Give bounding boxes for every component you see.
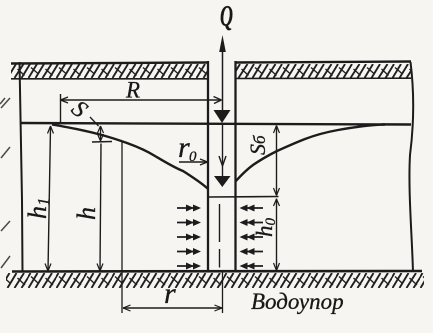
- ground surface top edge right: [236, 62, 411, 63]
- r0 arrow: [200, 159, 208, 165]
- R dimension line: [61, 99, 222, 101]
- well right wall: [234, 61, 236, 272]
- dashed well axis: [219, 204, 221, 268]
- svg-text:h: h: [72, 207, 101, 220]
- left border: [20, 62, 23, 272]
- ground bottom edge right: [236, 77, 411, 79]
- ground bottom edge left: [11, 78, 208, 80]
- edge tear marks left: [0, 98, 10, 268]
- r dimension line: [123, 307, 222, 309]
- h1 dimension line: [48, 127, 51, 271]
- dynamic level line: [209, 196, 279, 199]
- S end tick: [92, 141, 112, 144]
- h0 dimension line: [276, 199, 278, 272]
- S dimension: [100, 127, 102, 140]
- r extension left: [121, 142, 123, 313]
- right border: [409, 62, 413, 272]
- depression curve right: [236, 125, 385, 182]
- r extension right: [222, 272, 224, 313]
- static water level line: [20, 123, 411, 125]
- aquiclude hatch: [6, 273, 424, 288]
- ground hatch left: [11, 64, 208, 78]
- S leader: [90, 117, 99, 126]
- water table symbol (static): [214, 110, 231, 123]
- R right arrow: [214, 97, 222, 104]
- h dimension line: [100, 144, 101, 272]
- Sb dimension line: [276, 126, 278, 195]
- discharge up arrow: [222, 46, 224, 110]
- R left arrow: [61, 97, 69, 103]
- r0 dimension line: [179, 161, 207, 163]
- well axis segment: [222, 123, 224, 176]
- well left wall: [207, 61, 209, 272]
- svg-text:Q: Q: [220, 0, 233, 33]
- aquiclude top line: [12, 270, 422, 273]
- svg-text:r: r: [164, 277, 176, 310]
- flow arrows left: [177, 205, 201, 270]
- depression curve left: [52, 125, 208, 189]
- flow arrows right: [240, 205, 264, 270]
- R extension line: [60, 94, 62, 124]
- ground hatch right: [236, 64, 411, 78]
- water table symbol (dynamic): [214, 176, 231, 187]
- svg-text:R: R: [125, 78, 140, 103]
- svg-text:Водоупор: Водоупор: [251, 289, 344, 314]
- ground surface top edge left: [11, 63, 208, 64]
- open down arrow: [219, 156, 226, 166]
